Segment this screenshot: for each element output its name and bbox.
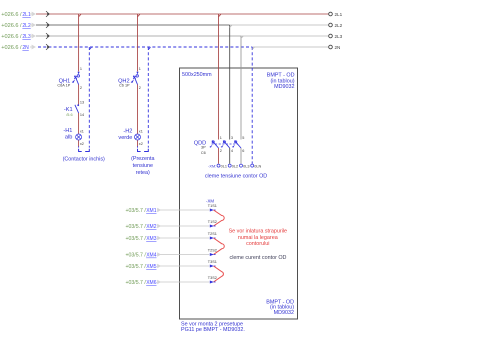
svg-text:XM1: XM1 — [146, 208, 157, 214]
svg-text:verde: verde — [118, 135, 132, 141]
pin labels QDD top — [220, 136, 245, 140]
svg-text:5: 5 — [242, 136, 244, 140]
svg-text:XM6: XM6 — [146, 280, 157, 286]
label H2 — [118, 128, 132, 141]
wire N drop dashed — [252, 47, 254, 164]
svg-text:+026.6 /: +026.6 / — [1, 23, 22, 29]
label K1 — [64, 107, 73, 117]
label -XM: — [208, 165, 216, 169]
svg-text:2L3: 2L3 — [335, 34, 343, 39]
switch QH2 — [131, 72, 139, 85]
svg-text:+03/5.7 /: +03/5.7 / — [125, 224, 146, 230]
label bus 2L2 — [1, 23, 31, 29]
svg-text:-XM: -XM — [206, 199, 214, 204]
label T3S2 — [208, 276, 217, 280]
contact K1 — [75, 104, 79, 113]
wire branch2 N vertical — [148, 47, 150, 148]
svg-text:0L1: 0L1 — [221, 165, 227, 169]
label QH2 — [118, 78, 130, 87]
terminal label 2L2 — [335, 23, 343, 28]
switch QH1 — [72, 72, 80, 85]
svg-text:T3S1: T3S1 — [208, 260, 217, 264]
label XM4 — [125, 253, 156, 259]
svg-text:PG11 pe BMPT - MD9032.: PG11 pe BMPT - MD9032. — [181, 327, 245, 333]
svg-text:retea): retea) — [136, 170, 150, 176]
svg-text:2: 2 — [220, 149, 222, 153]
note cleme tensiune contor OD — [205, 173, 267, 179]
terminal XM 0LN — [251, 164, 254, 167]
pin labels H1 — [80, 129, 84, 145]
svg-text:+03/5.7 /: +03/5.7 / — [125, 236, 146, 242]
label QDD — [194, 141, 206, 155]
wire branch2 L1 vertical — [138, 14, 140, 147]
svg-text:cleme tensiune contor OD: cleme tensiune contor OD — [205, 173, 267, 179]
terminal circle 2N — [329, 45, 333, 49]
wire bus 2L2 — [36, 24, 329, 26]
svg-text:x2: x2 — [139, 142, 143, 146]
svg-text:500x250mm: 500x250mm — [182, 72, 212, 78]
wire branch1 N link dashed — [79, 146, 90, 151]
wire bus 2N — [38, 46, 329, 48]
svg-text:2L2: 2L2 — [22, 23, 31, 29]
svg-text:2L1: 2L1 — [22, 12, 31, 18]
label H1 — [63, 128, 72, 141]
source arrow 2N — [46, 44, 49, 50]
svg-text:2L1: 2L1 — [335, 12, 343, 17]
terminal XM 0L2 — [228, 164, 231, 167]
wire bus 2L1 — [36, 13, 329, 15]
wire XM2 — [157, 224, 209, 228]
label 500x250mm — [182, 72, 212, 78]
label XM5 — [125, 264, 156, 270]
label T2S2 — [208, 249, 217, 253]
svg-text:2N: 2N — [22, 45, 29, 51]
label T2S1 — [208, 232, 217, 236]
svg-text:2N: 2N — [335, 45, 341, 50]
label T1S1 — [208, 204, 217, 208]
interruption arrow gray 2L2 — [30, 23, 36, 28]
interruption arrow gray 2L1 — [30, 12, 36, 17]
svg-text:T1S2: T1S2 — [208, 220, 217, 224]
svg-text:+026.6 /: +026.6 / — [1, 12, 22, 18]
svg-text:3P: 3P — [201, 146, 206, 150]
label T3S1 — [208, 260, 217, 264]
pin labels H2 — [139, 129, 143, 145]
wire L3 drop to QDD — [241, 36, 243, 164]
label T1S2 — [208, 220, 217, 224]
terminal T3S2 — [210, 281, 216, 284]
wire XM5 — [157, 264, 209, 268]
breaker QDD pole 3 — [232, 141, 241, 148]
label 0L2 — [232, 165, 238, 169]
svg-text:+03/5.7 /: +03/5.7 / — [125, 208, 146, 214]
svg-text:2L3: 2L3 — [22, 34, 31, 40]
svg-text:0L3: 0L3 — [243, 165, 249, 169]
svg-text:-H1: -H1 — [63, 128, 72, 134]
svg-text:+026.6 /: +026.6 / — [1, 45, 22, 51]
terminal T3S1 — [210, 265, 216, 268]
wire branch2 N link dashed — [138, 146, 149, 151]
svg-text:MD9032: MD9032 — [274, 84, 294, 90]
terminal T1S2 — [210, 225, 216, 228]
pin labels QH1 — [80, 67, 82, 90]
enclosure box BMPT — [180, 68, 298, 319]
lamp H1 — [76, 134, 82, 140]
wire bus 2L3 — [36, 35, 329, 37]
svg-text:(Prezenta: (Prezenta — [131, 156, 154, 162]
svg-text:XM2: XM2 — [146, 224, 157, 230]
svg-text:XM3: XM3 — [146, 236, 157, 242]
terminal T1S1 — [210, 209, 216, 212]
svg-text:x1: x1 — [80, 129, 84, 133]
svg-text:1: 1 — [220, 136, 222, 140]
svg-text:+026.6 /: +026.6 / — [1, 34, 22, 40]
svg-text:T2S1: T2S1 — [208, 232, 217, 236]
svg-text:x1: x1 — [139, 129, 143, 133]
terminal label 2L1 — [335, 12, 343, 17]
interruption arrow gray 2N — [30, 45, 36, 50]
svg-text:x2: x2 — [80, 142, 84, 146]
svg-text:1: 1 — [139, 67, 141, 71]
terminal XM 0L3 — [240, 164, 243, 167]
svg-text:13: 13 — [80, 101, 84, 105]
svg-text:-XM:: -XM: — [208, 165, 216, 169]
pin labels K1 — [80, 101, 84, 117]
svg-text:0L2: 0L2 — [232, 165, 238, 169]
svg-text:/5.6: /5.6 — [66, 113, 72, 117]
breaker QDD link dashed — [212, 143, 239, 145]
note cleme curent contor OD — [230, 255, 287, 261]
interruption arrow gray 2L3 — [30, 34, 36, 39]
label BMPT bottom right — [266, 299, 294, 315]
terminal circle 2L3 — [329, 34, 333, 38]
svg-text:alb: alb — [65, 135, 72, 141]
svg-text:-H2: -H2 — [123, 128, 132, 134]
label XM2 — [125, 224, 156, 230]
source arrow 2L1 — [46, 11, 49, 17]
label QH1 — [57, 78, 70, 87]
svg-text:C6A 1P: C6A 1P — [57, 84, 70, 88]
terminal T2S2 — [210, 253, 216, 256]
pin labels QDD bottom — [220, 149, 245, 153]
svg-text:contorului: contorului — [246, 241, 269, 247]
svg-text:1: 1 — [80, 67, 82, 71]
svg-text:2: 2 — [139, 86, 141, 90]
svg-text:tensiune: tensiune — [133, 163, 153, 169]
svg-text:C6 1P: C6 1P — [119, 84, 130, 88]
svg-text:MD9032: MD9032 — [274, 310, 294, 316]
lamp H2 — [135, 134, 141, 140]
svg-text:cleme curent contor OD: cleme curent contor OD — [230, 255, 287, 261]
label XM1 — [125, 208, 156, 214]
label XM6 — [125, 280, 156, 286]
wire XM3 — [157, 236, 209, 240]
wire L1 drop to QDD — [219, 14, 221, 164]
svg-text:T1S1: T1S1 — [208, 204, 217, 208]
note remove straps red — [229, 228, 287, 247]
wire branch1 N vertical — [89, 47, 91, 148]
breaker QDD pole 2 — [221, 141, 230, 148]
terminal T2S1 — [210, 237, 216, 240]
svg-text:XM5: XM5 — [146, 264, 157, 270]
svg-text:Se vor inlatura strapurile: Se vor inlatura strapurile — [229, 228, 287, 234]
svg-text:2: 2 — [80, 86, 82, 90]
terminal label 2L3 — [335, 34, 343, 39]
svg-text:6: 6 — [242, 149, 244, 153]
svg-text:C6: C6 — [201, 151, 206, 155]
svg-text:3: 3 — [231, 136, 233, 140]
svg-text:+03/5.7 /: +03/5.7 / — [125, 264, 146, 270]
label bus 2L1 — [1, 12, 31, 18]
source arrow 2L2 — [46, 22, 49, 28]
svg-text:2L2: 2L2 — [335, 23, 343, 28]
note contactor inchis — [63, 157, 105, 163]
svg-text:XM4: XM4 — [146, 253, 157, 259]
label bus 2L3 — [1, 34, 31, 40]
svg-text:4: 4 — [231, 149, 233, 153]
pin labels QH2 — [139, 67, 141, 90]
note presetupe — [181, 321, 245, 332]
label XM3 — [125, 236, 156, 242]
terminal XM 0L1 — [217, 164, 220, 167]
svg-text:0LN: 0LN — [254, 165, 261, 169]
svg-text:+03/5.7 /: +03/5.7 / — [125, 253, 146, 259]
svg-text:14: 14 — [80, 113, 84, 117]
source arrow 2L3 — [46, 33, 49, 39]
svg-text:T2S2: T2S2 — [208, 249, 217, 253]
svg-text:numai la legarea: numai la legarea — [238, 235, 278, 241]
strap T1S1-T1S2 — [214, 210, 225, 226]
strap T2S1-T2S2 — [214, 238, 225, 255]
strap T3S1-T3S2 — [214, 266, 224, 282]
terminal label 2N — [335, 45, 341, 50]
wire branch1 L1 vertical — [79, 14, 81, 147]
label 0LN — [254, 165, 261, 169]
wire XM6 — [157, 280, 209, 284]
note prezenta tensiune retea — [131, 156, 154, 176]
terminal circle 2L1 — [329, 12, 333, 16]
wire XM4 — [157, 252, 209, 256]
svg-text:(Contactor inchis): (Contactor inchis) — [63, 157, 105, 163]
label BMPT top right — [267, 72, 295, 90]
terminal circle 2L2 — [329, 23, 333, 27]
wire L2 drop to QDD — [230, 25, 232, 164]
label 0L3 — [243, 165, 249, 169]
wire XM1 — [157, 208, 209, 212]
breaker QDD pole 1 — [209, 141, 218, 148]
label 0L1 — [221, 165, 227, 169]
svg-text:+03/5.7 /: +03/5.7 / — [125, 280, 146, 286]
label -XM header — [206, 199, 214, 204]
label bus 2N — [1, 45, 29, 51]
svg-text:T3S2: T3S2 — [208, 276, 217, 280]
